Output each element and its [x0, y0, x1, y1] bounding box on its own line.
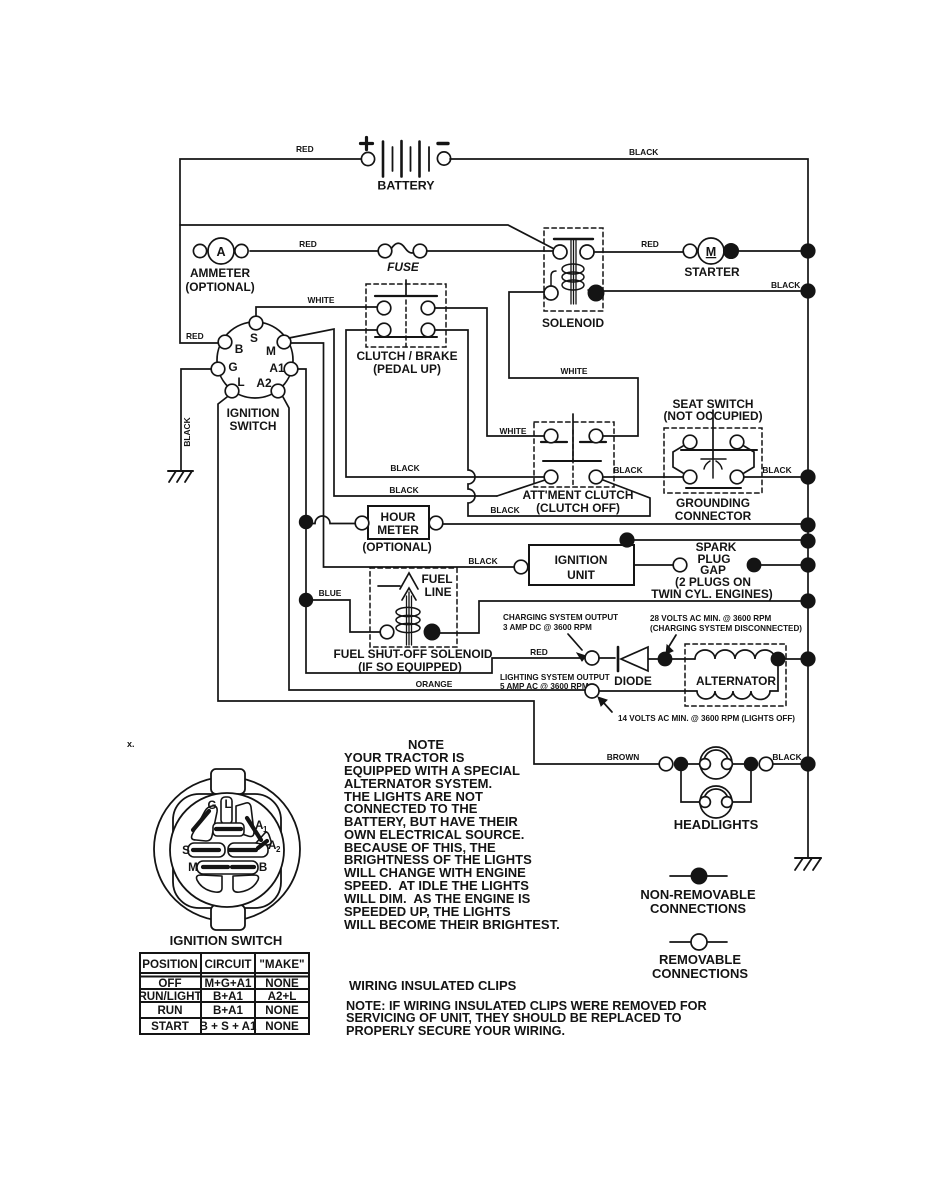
svg-text:2: 2	[276, 845, 281, 854]
svg-text:14 VOLTS AC MIN. @ 3600 RPM (L: 14 VOLTS AC MIN. @ 3600 RPM (LIGHTS OFF)	[618, 714, 795, 723]
connector top tab	[211, 769, 245, 794]
svg-text:UNIT: UNIT	[567, 568, 595, 582]
cavity bottom-left pie	[197, 875, 223, 892]
attachment clutch switch	[523, 414, 634, 515]
connector inner circle	[170, 793, 284, 907]
svg-text:CIRCUIT: CIRCUIT	[204, 958, 251, 971]
legend removable connection	[652, 934, 748, 981]
connector bottom tab	[211, 905, 245, 930]
fuse F1	[378, 243, 427, 274]
svg-text:DIODE: DIODE	[614, 674, 652, 688]
svg-text:ATT'MENT CLUTCH: ATT'MENT CLUTCH	[523, 488, 634, 502]
svg-text:A2+L: A2+L	[268, 990, 297, 1003]
wire clutch-brake bottom-right to attm clutch via loop	[435, 330, 650, 516]
svg-text:B+A1: B+A1	[213, 1004, 244, 1017]
svg-text:WIRING INSULATED CLIPS: WIRING INSULATED CLIPS	[349, 978, 517, 993]
svg-text:"MAKE": "MAKE"	[259, 958, 304, 971]
28 volts annotation	[650, 614, 802, 633]
svg-text:BROWN: BROWN	[607, 752, 640, 762]
svg-text:BLACK: BLACK	[490, 505, 519, 515]
svg-text:RUN/LIGHT: RUN/LIGHT	[138, 990, 201, 1003]
svg-text:WHITE: WHITE	[308, 295, 335, 305]
wiring insulated clips text	[346, 978, 707, 1038]
ignition switch schematic	[211, 316, 298, 433]
svg-text:B: B	[235, 342, 244, 356]
wire solenoid ground BLACK to bus	[603, 290, 808, 292]
connector outer ring	[154, 777, 300, 921]
wire A2 terminal ORANGE	[283, 397, 585, 690]
svg-text:BLACK: BLACK	[182, 417, 192, 446]
svg-text:BLACK: BLACK	[772, 752, 801, 762]
svg-text:BLACK: BLACK	[629, 147, 658, 157]
junction dot bus-alternator	[800, 651, 815, 666]
starter motor M	[683, 238, 740, 279]
junction dot diode-alternator	[658, 652, 673, 667]
wire battery positive feed	[180, 159, 560, 343]
cavity A1 band	[236, 803, 254, 837]
diagonal black wire into attm clutch bottom-left	[497, 480, 545, 496]
svg-text:BLACK: BLACK	[771, 280, 800, 290]
terminal M stroke	[203, 865, 228, 869]
junction dot alternator output	[771, 652, 786, 667]
junction dot A1-blue	[299, 593, 313, 607]
wire attm clutch to grounding connector BLACK	[603, 476, 683, 478]
wire lighting to alternator	[599, 690, 697, 692]
svg-text:5 AMP AC @ 3600 RPM: 5 AMP AC @ 3600 RPM	[500, 682, 589, 691]
wire A1 terminal feed	[298, 369, 585, 673]
svg-text:IGNITION SWITCH: IGNITION SWITCH	[170, 933, 283, 948]
svg-text:AMMETER: AMMETER	[190, 266, 251, 280]
svg-text:OFF: OFF	[158, 977, 181, 990]
svg-text:BLACK: BLACK	[389, 485, 418, 495]
wire spark gap to bus	[761, 564, 808, 566]
svg-text:(OPTIONAL): (OPTIONAL)	[185, 280, 254, 294]
connector body square	[173, 794, 281, 908]
svg-text:METER: METER	[377, 523, 419, 537]
svg-text:ORANGE: ORANGE	[416, 679, 453, 689]
svg-text:NON-REMOVABLE: NON-REMOVABLE	[640, 887, 756, 902]
wire alternator to bus	[785, 658, 808, 660]
svg-text:G: G	[228, 360, 237, 374]
junction dot bus-grounding	[800, 469, 815, 484]
svg-text:BATTERY: BATTERY	[377, 179, 435, 193]
svg-text:RED: RED	[186, 331, 204, 341]
spark plug gap dot	[747, 558, 762, 573]
svg-text:RUN: RUN	[157, 1004, 182, 1017]
terminal S2 stroke	[230, 848, 256, 852]
svg-text:3 AMP DC @ 3600 RPM: 3 AMP DC @ 3600 RPM	[503, 623, 592, 632]
svg-text:(IF SO EQUIPPED): (IF SO EQUIPPED)	[358, 660, 462, 674]
svg-text:SERVICING OF UNIT, THEY SHOULD: SERVICING OF UNIT, THEY SHOULD BE REPLAC…	[346, 1011, 682, 1025]
svg-text:IGNITION: IGNITION	[555, 553, 608, 567]
diode D1	[599, 647, 658, 688]
cavity center bar	[213, 823, 244, 836]
ammeter A	[185, 238, 254, 294]
headlight connection dots	[659, 757, 673, 771]
svg-text:S: S	[182, 844, 190, 857]
junction dot bus-spark	[800, 557, 815, 572]
svg-text:M: M	[706, 245, 717, 259]
svg-text:CHARGING SYSTEM OUTPUT: CHARGING SYSTEM OUTPUT	[503, 613, 618, 622]
svg-text:FUSE: FUSE	[387, 260, 420, 274]
svg-text:HEADLIGHTS: HEADLIGHTS	[674, 817, 759, 832]
cavity A2 hook	[256, 832, 271, 845]
junction dot bus-solenoid	[800, 283, 815, 298]
svg-text:NONE: NONE	[265, 977, 299, 990]
right ground bus wire	[807, 251, 809, 858]
svg-text:1: 1	[263, 825, 268, 834]
svg-text:(PEDAL UP): (PEDAL UP)	[373, 362, 441, 376]
svg-text:M: M	[266, 344, 276, 358]
svg-text:NONE: NONE	[265, 1004, 299, 1017]
svg-text:BLACK: BLACK	[468, 556, 497, 566]
wire ignition unit dot to bus	[634, 539, 808, 541]
terminal A1 stroke	[247, 818, 261, 840]
junction dot bus-sparkwire	[800, 533, 815, 548]
svg-text:FUEL SHUT-OFF SOLENOID: FUEL SHUT-OFF SOLENOID	[334, 647, 493, 661]
terminal A2 stroke	[258, 841, 267, 848]
wire solenoid to starter RED	[594, 251, 683, 253]
cavity bottom-right pie	[233, 875, 259, 892]
battery BT1	[361, 138, 451, 193]
junction dot A1-hourmeter	[299, 515, 313, 529]
wire BLUE to fuel solenoid	[306, 600, 380, 632]
svg-text:WHITE: WHITE	[500, 426, 527, 436]
terminal center stroke	[216, 827, 241, 831]
wire battery negative to bus	[450, 159, 808, 250]
left ground symbol	[168, 471, 193, 482]
junction dot bus-hourmeter	[800, 517, 815, 532]
hour meter squiggle wire	[306, 516, 355, 524]
wire ammeter to fuse RED	[250, 250, 378, 252]
svg-text:CONNECTOR: CONNECTOR	[675, 509, 752, 523]
junction dot bus-headlights	[800, 756, 815, 771]
legend non-removable connection	[640, 868, 756, 916]
cavity M B slot	[197, 861, 258, 874]
wire M terminal to ignition unit	[291, 343, 514, 567]
svg-text:BLUE: BLUE	[319, 588, 342, 598]
svg-text:RED: RED	[530, 647, 548, 657]
svg-text:IGNITION: IGNITION	[227, 406, 280, 420]
svg-text:x.: x.	[127, 739, 135, 749]
svg-text:LINE: LINE	[424, 585, 451, 599]
svg-text:B+A1: B+A1	[213, 990, 244, 1003]
headlamp 2 parallel wires	[681, 771, 751, 802]
spark gap terminal circle	[673, 558, 687, 572]
headlamp 1	[688, 747, 744, 779]
svg-text:WILL BECOME THEIR BRIGHTEST.: WILL BECOME THEIR BRIGHTEST.	[344, 917, 560, 932]
svg-text:S: S	[250, 331, 258, 345]
terminal G stroke	[193, 811, 209, 830]
wire grounding connector BLACK to bus	[744, 476, 808, 478]
svg-text:SWITCH: SWITCH	[230, 419, 277, 433]
svg-text:BLACK: BLACK	[390, 463, 419, 473]
svg-text:ALTERNATOR: ALTERNATOR	[696, 674, 776, 688]
wire clutch-brake top-right WHITE to attm clutch	[435, 308, 544, 436]
headlight right dots and BLACK to bus	[744, 757, 758, 771]
svg-text:(CHARGING SYSTEM DISCONNECTED): (CHARGING SYSTEM DISCONNECTED)	[650, 624, 802, 633]
wire fuse to solenoid	[427, 250, 553, 252]
svg-text:M+G+A1: M+G+A1	[204, 977, 252, 990]
note text block	[344, 737, 560, 932]
svg-text:SOLENOID: SOLENOID	[542, 316, 605, 330]
svg-text:WHITE: WHITE	[561, 366, 588, 376]
svg-text:RED: RED	[296, 144, 314, 154]
svg-text:NONE: NONE	[265, 1020, 299, 1033]
connector labels	[182, 798, 281, 874]
charging terminal circle	[585, 651, 599, 665]
svg-text:(CLUTCH OFF): (CLUTCH OFF)	[536, 501, 620, 515]
svg-text:L: L	[224, 798, 231, 811]
svg-text:L: L	[237, 375, 244, 389]
svg-text:CLUTCH / BRAKE: CLUTCH / BRAKE	[356, 349, 457, 363]
wire ignition unit to spark gap	[634, 564, 673, 566]
svg-text:REMOVABLE: REMOVABLE	[659, 952, 741, 967]
cavity S slot left	[188, 843, 225, 857]
wire solenoid WHITE to attm clutch top-right	[509, 292, 638, 436]
svg-text:PROPERLY SECURE YOUR WIRING.: PROPERLY SECURE YOUR WIRING.	[346, 1024, 565, 1038]
cavity S slot right	[228, 843, 268, 857]
hour meter	[355, 506, 443, 554]
terminal B stroke	[232, 865, 254, 869]
alternator	[672, 644, 786, 706]
wire L terminal to headlights BROWN	[218, 397, 659, 764]
svg-text:28 VOLTS AC MIN. @ 3600 RPM: 28 VOLTS AC MIN. @ 3600 RPM	[650, 614, 771, 623]
svg-text:BLACK: BLACK	[613, 465, 642, 475]
right ground symbol	[795, 858, 821, 870]
ignition switch table	[138, 953, 309, 1034]
svg-text:A: A	[216, 245, 225, 259]
cavity left triangle	[192, 806, 218, 841]
headlamp 2	[700, 786, 733, 818]
ignition switch connector detail	[154, 769, 300, 930]
seat switch / grounding connector	[663, 397, 762, 523]
svg-text:GROUNDING: GROUNDING	[676, 496, 750, 510]
svg-text:RED: RED	[641, 239, 659, 249]
svg-text:BLACK: BLACK	[762, 465, 791, 475]
wire starter to bus	[738, 250, 808, 252]
svg-text:CONNECTIONS: CONNECTIONS	[652, 966, 748, 981]
junction dot bus-starter	[800, 243, 815, 258]
terminal S stroke	[193, 848, 219, 852]
fuel shut-off solenoid	[334, 568, 493, 674]
charging output annotation	[503, 613, 618, 632]
svg-text:A2: A2	[256, 376, 272, 390]
svg-text:LIGHTING SYSTEM OUTPUT: LIGHTING SYSTEM OUTPUT	[500, 673, 610, 682]
svg-text:FUEL: FUEL	[421, 572, 452, 586]
wire G terminal BLACK to left ground	[181, 369, 211, 470]
svg-text:HOUR: HOUR	[380, 510, 415, 524]
lighting output annotation	[500, 673, 610, 691]
svg-text:M: M	[188, 861, 198, 874]
wire S terminal WHITE to clutch-brake	[256, 307, 377, 316]
spark plug label	[651, 540, 773, 601]
cavity center slot	[221, 797, 232, 824]
clutch brake switch	[356, 280, 457, 376]
svg-text:B + S + A1: B + S + A1	[200, 1020, 257, 1033]
svg-text:TWIN CYL. ENGINES): TWIN CYL. ENGINES)	[651, 587, 773, 601]
wire M terminal to attachment clutch	[289, 329, 497, 496]
wire fuel solenoid to bus	[440, 601, 808, 633]
svg-text:POSITION: POSITION	[142, 958, 197, 971]
svg-text:(OPTIONAL): (OPTIONAL)	[362, 540, 431, 554]
svg-text:CONNECTIONS: CONNECTIONS	[650, 901, 746, 916]
svg-text:STARTER: STARTER	[684, 265, 740, 279]
svg-text:G: G	[207, 799, 216, 812]
ignition unit	[514, 545, 634, 585]
lighting terminal circle	[585, 684, 599, 698]
svg-text:B: B	[259, 861, 267, 874]
svg-text:RED: RED	[299, 239, 317, 249]
svg-text:A1: A1	[269, 361, 285, 375]
wire clutch-brake lower-left BLACK to attm clutch	[346, 330, 544, 477]
junction dot bus-fuel	[800, 593, 815, 608]
solenoid K1	[542, 228, 605, 330]
svg-text:START: START	[151, 1020, 189, 1033]
wire hour meter to bus	[443, 523, 808, 525]
junction dot ignition unit top	[619, 532, 634, 547]
